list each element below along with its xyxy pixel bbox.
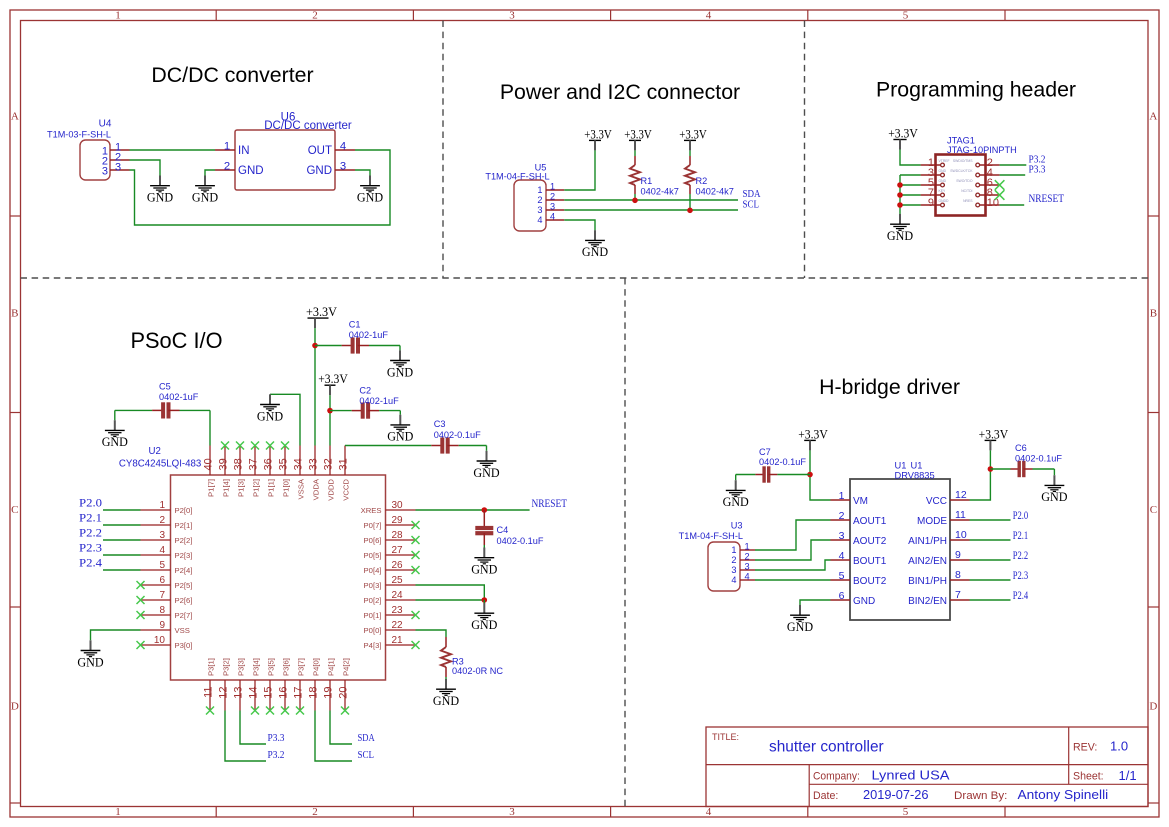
U6 pin 2 GND stub — [215, 169, 235, 171]
wire JTAG1.5 to bus — [900, 184, 921, 186]
svg-text:P3[1]: P3[1] — [206, 658, 215, 676]
svg-text:IN: IN — [238, 145, 250, 157]
+3.3V power symbol at U1.VCC — [979, 426, 1009, 450]
svg-text:1: 1 — [115, 806, 121, 818]
svg-text:P2.2: P2.2 — [79, 528, 102, 540]
svg-text:GND: GND — [306, 165, 332, 177]
svg-text:2: 2 — [224, 160, 230, 172]
JTAG1 pin 9 (left) — [921, 197, 949, 209]
svg-text:P3[7]: P3[7] — [296, 658, 305, 676]
svg-text:BOUT1: BOUT1 — [853, 556, 887, 567]
svg-text:P3[2]: P3[2] — [221, 658, 230, 676]
svg-text:U4: U4 — [99, 119, 112, 130]
svg-text:XRES: XRES — [361, 506, 382, 515]
svg-text:SDA: SDA — [358, 733, 376, 744]
svg-text:27: 27 — [392, 545, 404, 556]
svg-text:P0[1]: P0[1] — [364, 611, 382, 620]
svg-text:4: 4 — [340, 140, 346, 152]
svg-text:P2.4: P2.4 — [1013, 590, 1029, 602]
no-connect U2 pin 28 — [412, 536, 420, 544]
svg-text:23: 23 — [392, 605, 404, 616]
wire U2 pin19 net SDA — [330, 711, 352, 745]
label C3 0402-0.1uF — [434, 419, 481, 440]
JTAG1 pin 7 (left) — [921, 187, 946, 199]
wire U3.1 to U1.AOUT1 — [755, 520, 831, 550]
svg-text:5: 5 — [839, 570, 845, 582]
frame column ticks bottom — [216, 807, 1005, 818]
svg-text:P2[6]: P2[6] — [175, 596, 193, 605]
JTAG1 pin 8 (right) — [961, 187, 999, 199]
U1 pin 10 AIN1/PH stub — [908, 529, 969, 547]
svg-text:18: 18 — [308, 687, 320, 699]
U4 pin 1 stub — [110, 149, 130, 151]
net label P2.2 — [79, 528, 102, 540]
svg-text:D: D — [11, 701, 19, 713]
svg-text:21: 21 — [392, 635, 404, 646]
svg-text:2: 2 — [312, 806, 318, 818]
frame row letters left — [11, 111, 19, 713]
no-connect U2 pin 26 — [412, 566, 420, 574]
wire U2 pin18 net SCL — [315, 711, 352, 762]
svg-text:CY8C4245LQI-483: CY8C4245LQI-483 — [119, 459, 201, 470]
svg-text:P1[2]: P1[2] — [251, 479, 260, 497]
wire +3.3V to U5.1 — [564, 150, 595, 190]
svg-text:B: B — [11, 308, 18, 320]
svg-text:15: 15 — [263, 687, 275, 699]
resistor R3 zigzag — [441, 647, 451, 667]
net label SCL — [743, 200, 760, 211]
svg-text:P2[4]: P2[4] — [175, 566, 193, 575]
svg-text:4: 4 — [706, 10, 712, 22]
svg-text:4: 4 — [744, 572, 749, 582]
svg-text:C5: C5 — [159, 382, 171, 392]
label C6 0402-0.1uF — [1015, 443, 1062, 464]
wire JTAG1.10 net NRESET — [1000, 204, 1025, 206]
svg-text:0402-4k7: 0402-4k7 — [696, 186, 734, 196]
wire +3.3V to JTAG1.1 — [900, 150, 921, 166]
connector U3 T1M-04-F-SH-L — [679, 521, 743, 592]
U2 pin 26 P0[4] stub — [364, 560, 416, 575]
IC U2 CY8C4245LQI-483 — [119, 446, 386, 680]
svg-text:10: 10 — [955, 529, 967, 541]
ground for VSSA — [257, 394, 283, 423]
svg-text:2: 2 — [159, 515, 165, 526]
no-connect U2 pin 15 — [266, 707, 274, 715]
JTAG1 pin 3 (left) — [921, 167, 947, 179]
U2 pin 21 P4[3] stub — [364, 635, 416, 650]
svg-text:MODE: MODE — [917, 516, 947, 527]
svg-text:24: 24 — [392, 590, 404, 601]
U5 pin 1 stub — [546, 189, 564, 191]
svg-text:2: 2 — [731, 555, 736, 565]
no-connect JTAG1.6 — [995, 180, 1005, 190]
svg-text:6: 6 — [839, 590, 845, 602]
svg-text:PSoC I/O: PSoC I/O — [130, 328, 222, 353]
svg-text:A: A — [11, 111, 19, 123]
wire U3.3 to U1.BOUT1 — [755, 560, 831, 570]
svg-text:1: 1 — [731, 545, 736, 555]
net label P2.1 — [79, 513, 102, 525]
svg-text:P2[7]: P2[7] — [175, 611, 193, 620]
wire U2 pin12 net P3.2 — [225, 711, 266, 762]
label R1 0402-4k7 — [641, 176, 679, 196]
svg-text:4: 4 — [839, 550, 845, 562]
U5 pin 3 stub — [546, 209, 564, 211]
U2 pin 32 VDDD stub — [323, 446, 336, 501]
frame row ticks right — [1148, 216, 1159, 803]
U2 pin 3 P2[2] stub — [141, 530, 193, 545]
svg-text:31: 31 — [338, 458, 350, 470]
svg-text:GND: GND — [853, 596, 875, 607]
wire net P2.1 — [103, 524, 141, 526]
U1 pin 12 VCC stub — [926, 489, 970, 507]
wire C3 to ground — [486, 446, 488, 451]
wire +3.3V to U2.VDDA — [314, 328, 316, 445]
svg-text:P3[6]: P3[6] — [281, 658, 290, 676]
U5 pin 4 stub — [546, 219, 564, 221]
connector U5 T1M-04-F-SH-L — [485, 163, 549, 232]
U2 pin 38 P1[3] stub — [233, 446, 246, 497]
svg-text:P1[0]: P1[0] — [281, 479, 290, 497]
svg-text:P1[4]: P1[4] — [221, 479, 230, 497]
svg-text:VSS: VSS — [175, 626, 190, 635]
wire C7 to ground — [735, 475, 737, 481]
wire net P2.4 — [103, 569, 141, 571]
U2 pin 17 P3[7] stub — [293, 658, 306, 710]
svg-text:P3[5]: P3[5] — [266, 658, 275, 676]
svg-text:14: 14 — [248, 687, 260, 699]
svg-text:R2: R2 — [696, 176, 708, 186]
wire U2.P0[2] — [416, 599, 485, 601]
svg-text:+3.3V: +3.3V — [798, 426, 828, 441]
svg-text:P0[7]: P0[7] — [364, 521, 382, 530]
no-connect U2 pin 35 — [281, 442, 289, 450]
net label NRESET — [1029, 193, 1065, 205]
svg-text:3: 3 — [159, 530, 165, 541]
capacitor — [475, 510, 493, 545]
svg-text:P0[0]: P0[0] — [364, 626, 382, 635]
svg-text:40: 40 — [203, 458, 215, 470]
svg-text:GND: GND — [471, 618, 497, 632]
svg-text:3: 3 — [115, 161, 121, 173]
no-connect U2 pin 7 — [137, 596, 145, 604]
U2 pin 37 P1[2] stub — [248, 446, 261, 497]
wire +3.3V to U1.VM — [810, 450, 831, 500]
svg-text:P2[2]: P2[2] — [175, 536, 193, 545]
svg-text:11: 11 — [203, 687, 215, 698]
no-connect U2 pin 38 — [236, 442, 244, 450]
svg-text:7: 7 — [955, 589, 961, 601]
net label P3.2 at U2 — [268, 750, 285, 761]
U2 pin 7 P2[6] stub — [141, 590, 193, 605]
wire U2.P0[3] down — [416, 585, 485, 600]
svg-text:H-bridge driver: H-bridge driver — [819, 375, 960, 399]
svg-text:GND: GND — [77, 655, 103, 669]
svg-text:10: 10 — [987, 197, 999, 209]
svg-text:P3.2: P3.2 — [268, 750, 285, 761]
ground right of C3 — [473, 451, 499, 480]
svg-text:BIN2/EN: BIN2/EN — [908, 596, 947, 607]
svg-text:GND: GND — [939, 179, 947, 183]
svg-text:P2.0: P2.0 — [1013, 510, 1029, 522]
U2 pin 16 P3[6] stub — [278, 658, 291, 710]
no-connect U2 pin 23 — [412, 611, 420, 619]
svg-text:+3.3V: +3.3V — [584, 126, 612, 141]
no-connect U2 pin 27 — [412, 551, 420, 559]
title block outline — [706, 727, 1148, 807]
junction P0 ground — [482, 597, 488, 603]
U2 pin 35 P1[0] stub — [278, 446, 291, 497]
U2 pin 9 VSS stub — [141, 620, 190, 635]
resistor R2 0402-4k7 — [689, 150, 691, 165]
svg-text:U3: U3 — [731, 521, 743, 531]
+3.3V power symbol VDDD — [318, 371, 348, 395]
wire C5 to ground — [114, 410, 116, 420]
svg-text:VDDD: VDDD — [326, 479, 335, 501]
net label NRESET at U2 — [532, 498, 568, 510]
svg-text:12: 12 — [218, 687, 230, 699]
wire JTAG1.2 net P3.2 — [1000, 164, 1027, 166]
junction JTAG bus pin9 — [897, 202, 903, 208]
net label P2.0 at U1 — [1013, 510, 1029, 522]
svg-text:38: 38 — [233, 458, 245, 470]
wire U6.GND right to ground — [355, 170, 370, 176]
wire +3.3V to U2.VDDD — [329, 395, 331, 445]
wire JTAG1.7 to bus — [900, 194, 921, 196]
svg-text:GND: GND — [257, 409, 283, 423]
svg-text:shutter controller: shutter controller — [769, 739, 884, 756]
+3.3V power symbol at U5.1 — [584, 126, 612, 150]
U1 pin 2 AOUT1 stub — [831, 510, 887, 527]
svg-text:5: 5 — [903, 806, 909, 818]
svg-text:3: 3 — [550, 202, 555, 212]
wire U2 pin13 net P3.3 — [240, 711, 266, 745]
svg-text:P3.3: P3.3 — [1029, 165, 1046, 176]
svg-text:P0[5]: P0[5] — [364, 551, 382, 560]
svg-text:U1: U1 — [895, 461, 907, 471]
svg-text:30: 30 — [392, 500, 404, 511]
svg-text:17: 17 — [293, 687, 305, 699]
wire U2.VSSA to ground — [270, 394, 300, 445]
svg-text:NRES: NRES — [963, 199, 973, 203]
svg-text:U2: U2 — [149, 446, 161, 457]
svg-text:REV:: REV: — [1073, 742, 1097, 754]
U2 pin 24 P0[2] stub — [364, 590, 416, 605]
frame row letters right — [1149, 111, 1157, 713]
svg-text:GND: GND — [433, 694, 459, 708]
wire C6 to ground — [1053, 469, 1055, 475]
svg-text:GND: GND — [582, 245, 608, 259]
svg-text:P0[6]: P0[6] — [364, 536, 382, 545]
wire U5.4 to ground — [564, 220, 595, 230]
svg-text:0402-0.1uF: 0402-0.1uF — [759, 457, 806, 467]
no-connect U2 pin 8 — [137, 611, 145, 619]
junction VDDD to C2 — [327, 408, 333, 414]
junction VCC to C6 — [988, 466, 994, 472]
U2 pin 30 XRES stub — [361, 500, 416, 515]
wire U1 net P2.4 — [970, 599, 1011, 601]
U2 pin 11 P3[1] stub — [203, 658, 216, 710]
svg-text:2: 2 — [839, 510, 845, 522]
U1 pin 7 BIN2/EN stub — [908, 589, 969, 607]
U2 pin 28 P0[6] stub — [364, 530, 416, 545]
svg-text:C2: C2 — [359, 386, 371, 396]
label R3 0402-0R NC — [452, 657, 503, 676]
svg-text:9: 9 — [159, 620, 165, 631]
no-connect JTAG1.8 — [995, 190, 1005, 200]
U6 pin 3 GND stub — [335, 169, 355, 171]
svg-text:VCCD: VCCD — [341, 479, 350, 501]
svg-text:19: 19 — [323, 687, 335, 699]
svg-text:P2.0: P2.0 — [79, 498, 102, 510]
svg-text:2019-07-26: 2019-07-26 — [863, 787, 929, 802]
net label P2.4 at U1 — [1013, 590, 1029, 602]
svg-text:1: 1 — [159, 500, 165, 511]
ground right of C2 — [387, 415, 413, 444]
svg-text:GND: GND — [1041, 490, 1067, 504]
U4 pin 2 stub — [110, 159, 130, 161]
label C7 0402-0.1uF — [759, 447, 806, 467]
wire JTAG ground bus vertical — [899, 175, 901, 214]
wire U1 net P2.0 — [970, 519, 1011, 521]
svg-text:A: A — [1149, 111, 1157, 123]
svg-text:5: 5 — [159, 560, 165, 571]
wire net P2.0 — [103, 509, 141, 511]
svg-text:+3.3V: +3.3V — [306, 304, 338, 319]
svg-text:SWDIO/TMS: SWDIO/TMS — [953, 159, 973, 163]
junction XRES to C4 — [482, 507, 488, 513]
svg-text:GND: GND — [471, 563, 497, 577]
svg-text:3: 3 — [102, 166, 108, 178]
svg-text:2: 2 — [537, 195, 542, 205]
U1 pin 8 BIN1/PH stub — [908, 569, 969, 587]
svg-text:Company:: Company: — [813, 771, 860, 783]
svg-text:+3.3V: +3.3V — [318, 371, 348, 386]
wire U4.2 to ground — [130, 160, 161, 176]
svg-text:GND: GND — [387, 365, 413, 379]
+3.3V power symbol at R2 — [679, 126, 707, 150]
svg-text:P2.1: P2.1 — [1013, 530, 1029, 542]
svg-text:DC/DC converter: DC/DC converter — [151, 63, 313, 87]
IC U6 DC/DC converter — [235, 112, 352, 191]
U1 pin 11 MODE stub — [917, 509, 970, 527]
svg-text:4: 4 — [706, 806, 712, 818]
svg-text:1: 1 — [224, 140, 230, 152]
svg-text:12: 12 — [955, 489, 967, 501]
svg-text:1: 1 — [115, 10, 121, 22]
svg-text:C4: C4 — [497, 525, 509, 535]
heading H-bridge driver — [819, 375, 960, 399]
svg-text:Lynred USA: Lynred USA — [872, 768, 950, 783]
section divider dashed vertical lower — [624, 278, 626, 807]
U1 pin 9 AIN2/EN stub — [908, 549, 969, 567]
net label P3.2 — [1029, 155, 1046, 166]
svg-text:P3.3: P3.3 — [268, 733, 285, 744]
svg-text:GND: GND — [723, 495, 749, 509]
svg-text:P2.4: P2.4 — [79, 558, 102, 570]
no-connect U2 pin 11 — [206, 707, 214, 715]
net label P3.3 at U2 — [268, 733, 285, 744]
svg-text:25: 25 — [392, 575, 404, 586]
wire C1 to ground — [399, 346, 401, 351]
svg-text:VSSA: VSSA — [296, 478, 305, 499]
svg-text:C: C — [1150, 504, 1157, 516]
wire net P2.3 — [103, 554, 141, 556]
svg-text:5: 5 — [903, 10, 909, 22]
svg-text:Programming header: Programming header — [876, 78, 1076, 102]
wire to ground — [483, 600, 485, 603]
svg-text:+3.3V: +3.3V — [888, 126, 918, 141]
svg-text:P0[4]: P0[4] — [364, 566, 382, 575]
svg-text:VCC: VCC — [926, 496, 947, 507]
svg-text:C1: C1 — [349, 320, 361, 330]
no-connect U2 pin 20 — [341, 707, 349, 715]
U2 pin 14 P3[4] stub — [248, 658, 261, 710]
U2 pin 27 P0[5] stub — [364, 545, 416, 560]
svg-text:Sheet:: Sheet: — [1073, 771, 1104, 783]
svg-text:1: 1 — [537, 185, 542, 195]
U6 pin 4 OUT stub — [335, 149, 355, 151]
wire U2.VSS to ground — [91, 630, 141, 640]
capacitor — [736, 466, 810, 482]
no-connect U2 pin 16 — [281, 707, 289, 715]
U2 pin 34 VSSA stub — [293, 446, 306, 500]
U2 pin 39 P1[4] stub — [218, 446, 231, 497]
junction JTAG bus pin5 — [897, 182, 903, 188]
junction VDDA to C1 — [312, 343, 318, 349]
no-connect U2 pin 10 — [137, 641, 145, 649]
no-connect U2 pin 29 — [412, 521, 420, 529]
U2 pin 2 P2[1] stub — [141, 515, 193, 530]
svg-text:28: 28 — [392, 530, 404, 541]
svg-text:P1[3]: P1[3] — [236, 479, 245, 497]
IC U1 DRV8835 — [850, 461, 950, 621]
no-connect U2 pin 17 — [296, 707, 304, 715]
svg-text:DC/DC converter: DC/DC converter — [264, 120, 352, 132]
ground right of C6 — [1041, 475, 1067, 504]
svg-text:TITLE:: TITLE: — [712, 732, 739, 742]
U1 pin 5 BOUT2 stub — [831, 570, 887, 587]
U2 pin 5 P2[4] stub — [141, 560, 193, 575]
ground below P0[2] — [471, 603, 497, 632]
svg-text:3: 3 — [537, 205, 542, 215]
U5 pin 2 stub — [546, 199, 564, 201]
U2 pin 13 P3[3] stub — [233, 658, 246, 710]
connector U4 T1M-03-F-SH-L — [47, 119, 112, 181]
U3 pin 2 stub — [740, 559, 755, 561]
svg-text:P2.2: P2.2 — [1013, 550, 1029, 562]
svg-text:C6: C6 — [1015, 443, 1027, 453]
+3.3V power symbol at JTAG1 — [888, 126, 918, 150]
U2 pin 18 P4[0] stub — [308, 658, 321, 710]
svg-text:P1[1]: P1[1] — [266, 479, 275, 497]
label C5 0402-1uF — [159, 382, 199, 402]
svg-text:GND: GND — [473, 466, 499, 480]
U3 pin 4 stub — [740, 579, 755, 581]
U3 pin 1 stub — [740, 549, 755, 551]
svg-text:1/1: 1/1 — [1119, 768, 1137, 783]
no-connect U2 pin 21 — [412, 641, 420, 649]
wire U2.P0[0] to R3 — [416, 630, 447, 637]
no-connect U2 pin 14 — [251, 707, 259, 715]
svg-text:34: 34 — [293, 458, 305, 470]
svg-text:BIN1/PH: BIN1/PH — [908, 576, 947, 587]
svg-text:KEY: KEY — [939, 189, 947, 193]
svg-text:22: 22 — [392, 620, 404, 631]
ground below R3 — [433, 679, 459, 708]
svg-text:P2.3: P2.3 — [1013, 570, 1029, 582]
net label SDA at U2 — [358, 733, 376, 744]
